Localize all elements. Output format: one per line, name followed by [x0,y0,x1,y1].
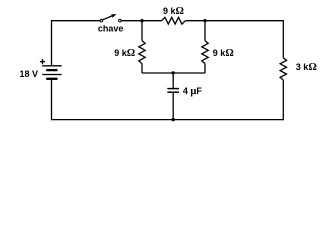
svg-text:chave: chave [98,24,124,34]
svg-text:3 kΩ: 3 kΩ [296,62,317,73]
svg-text:9 kΩ: 9 kΩ [213,48,234,59]
svg-text:9 kΩ: 9 kΩ [163,6,184,17]
svg-text:4 μF: 4 μF [183,86,202,97]
svg-text:9 kΩ: 9 kΩ [114,48,135,59]
svg-text:18 V: 18 V [20,69,39,79]
